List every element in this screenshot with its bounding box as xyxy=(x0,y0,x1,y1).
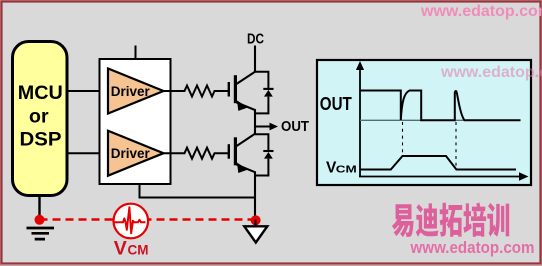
svg-text:Driver: Driver xyxy=(111,145,151,161)
svg-text:www.edatop.com: www.edatop.com xyxy=(420,3,542,20)
svg-text:or: or xyxy=(29,105,49,127)
svg-text:OUT: OUT xyxy=(281,119,309,135)
svg-text:www.edatop.com: www.edatop.com xyxy=(410,239,535,257)
svg-text:DSP: DSP xyxy=(20,129,62,151)
svg-text:OUT: OUT xyxy=(320,94,352,114)
svg-text:CM: CM xyxy=(336,163,357,175)
svg-text:MCU: MCU xyxy=(18,82,63,104)
svg-text:www.edatop.com: www.edatop.com xyxy=(440,64,542,81)
svg-text:DC: DC xyxy=(247,32,264,48)
svg-text:Driver: Driver xyxy=(111,83,151,99)
svg-text:V: V xyxy=(114,238,127,260)
svg-text:CM: CM xyxy=(128,243,149,258)
